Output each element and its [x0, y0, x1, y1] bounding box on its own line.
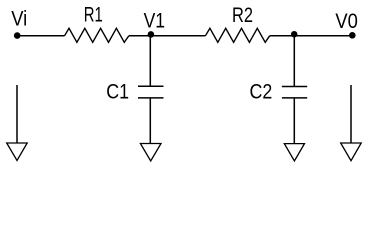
svg-text:C2: C2 [250, 79, 273, 103]
node Vi [14, 32, 21, 39]
svg-text:Vi: Vi [11, 6, 27, 30]
wire input ground stub [16, 85, 18, 143]
resistor R2 [205, 28, 269, 42]
node V0 [349, 32, 356, 39]
wire R1 to V1 [129, 35, 151, 37]
node V1 [148, 31, 155, 38]
junction node R2/C2 [291, 31, 297, 37]
wire R2 to junction [270, 35, 295, 37]
wire output ground stub [350, 85, 352, 143]
wire junction down to C2 [293, 36, 295, 87]
wire C2 to ground [293, 98, 295, 144]
wire junction to V0 [294, 35, 352, 37]
wire V1 to R2 [150, 35, 205, 37]
ground C2 [284, 144, 304, 161]
svg-text:R2: R2 [232, 3, 253, 27]
wire V1 down to C1 [149, 36, 151, 87]
svg-text:C1: C1 [106, 79, 129, 103]
wire Vi to R1 [17, 35, 65, 37]
svg-text:V1: V1 [144, 8, 166, 32]
ground input [7, 143, 28, 161]
svg-text:R1: R1 [84, 2, 103, 26]
svg-text:V0: V0 [335, 9, 358, 33]
wire C1 to ground [149, 98, 151, 144]
ground C1 [140, 144, 161, 162]
capacitor C2 [282, 87, 307, 98]
resistor R1 [65, 28, 129, 42]
capacitor C1 [138, 86, 164, 98]
ground output [341, 143, 362, 161]
